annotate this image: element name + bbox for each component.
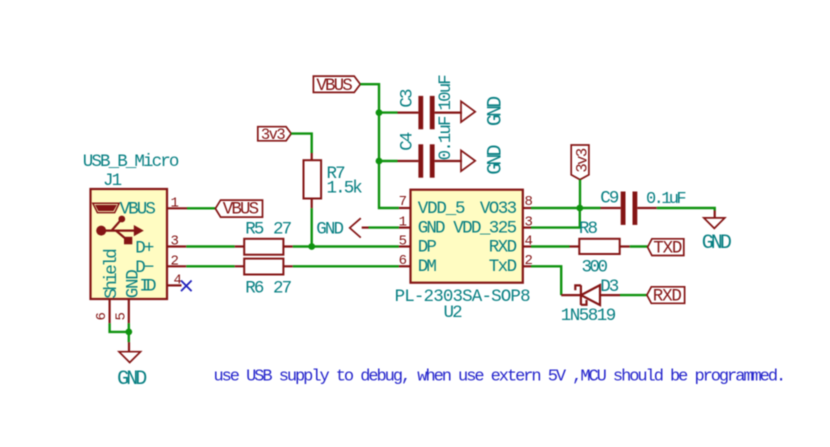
svg-text:6: 6 (94, 313, 110, 321)
junction R7/D+ (308, 243, 315, 250)
svg-text:7: 7 (399, 194, 407, 210)
wire U2 pin2 TxD down to D3 (531, 266, 561, 295)
pin 7 VDD_5 (399, 207, 411, 209)
wire U2 pin3 to 3v3 (531, 208, 580, 228)
svg-text:1: 1 (399, 214, 407, 230)
svg-text:GND: GND (316, 220, 343, 240)
svg-text:GND: GND (485, 145, 508, 174)
no-connect X on ID pin (181, 281, 192, 292)
hierarchical label GND (to U2 pin 1) (316, 218, 368, 239)
junction C3 row (376, 109, 383, 116)
svg-text:USB_B_Micro: USB_B_Micro (83, 152, 179, 172)
pin 1 GND (399, 227, 411, 229)
svg-text:R8: R8 (579, 219, 598, 239)
svg-text:1N5819: 1N5819 (561, 306, 616, 326)
global label VBUS (at pin 1) (215, 199, 262, 219)
svg-text:VBUS: VBUS (316, 76, 352, 96)
svg-text:27: 27 (273, 278, 292, 298)
svg-text:PL-2303SA-SOP8: PL-2303SA-SOP8 (395, 287, 530, 307)
pin 3 VDD_325 (523, 227, 531, 229)
pin 2 D- (167, 265, 186, 267)
svg-text:C9: C9 (600, 188, 619, 208)
wire D3 to RXD label (620, 294, 647, 296)
junction 3v3/pin8/C9 (576, 205, 583, 212)
svg-text:TXD: TXD (653, 238, 682, 258)
svg-text:D3: D3 (600, 277, 619, 297)
resistor R8 300 (531, 219, 630, 277)
svg-text:5: 5 (113, 313, 129, 321)
wires USB pins 5,6 to GND (110, 323, 129, 342)
pin 3 D+ (167, 245, 186, 247)
svg-text:Shield: Shield (102, 250, 122, 299)
svg-text:DM: DM (418, 257, 437, 277)
svg-text:VBUS: VBUS (120, 200, 156, 220)
global label RXD (647, 287, 685, 307)
power symbol GND (right of C3) (461, 97, 508, 126)
junction C4 row (376, 158, 383, 165)
svg-text:use USB supply to debug, when: use USB supply to debug, when use extern… (214, 367, 785, 386)
pin 5 DP (399, 245, 411, 247)
pin 5 GND (128, 299, 130, 323)
wire VBUS label to vertical bus (360, 84, 399, 208)
pin 8 VO33 (523, 207, 531, 209)
svg-text:TxD: TxD (489, 257, 517, 277)
svg-text:C3: C3 (398, 89, 418, 108)
svg-text:1.5k: 1.5k (327, 179, 363, 199)
svg-text:0.1uF: 0.1uF (646, 190, 685, 209)
svg-text:4: 4 (174, 273, 182, 289)
pin 6 shield (108, 299, 110, 323)
global label VBUS (top) (313, 76, 360, 96)
svg-text:VDD_325: VDD_325 (453, 218, 516, 238)
resistor R7 1.5k (304, 153, 363, 208)
svg-text:300: 300 (582, 258, 608, 278)
capacitor C3 10uF (379, 75, 462, 130)
global label 3v3 (vertical, right) (571, 145, 591, 180)
svg-text:1: 1 (171, 196, 179, 212)
pin 2 TxD (523, 265, 531, 267)
svg-text:0.1uF: 0.1uF (436, 116, 456, 160)
resistor R5 27 (235, 219, 293, 254)
svg-text:GND: GND (418, 218, 445, 238)
svg-text:5: 5 (399, 233, 407, 249)
svg-text:GND: GND (117, 368, 146, 391)
svg-text:27: 27 (273, 219, 292, 239)
wire R5 to U2 DP (293, 245, 399, 247)
pin 1 VBUS (167, 207, 187, 209)
IC U2 PL-2303SA-SOP8 (395, 190, 533, 323)
capacitor C9 0.1uF (600, 188, 685, 225)
svg-text:RXD: RXD (489, 238, 517, 258)
pin 4 ID (167, 284, 182, 286)
wire R6 to U2 DM (293, 265, 399, 267)
svg-text:2: 2 (171, 254, 179, 270)
svg-text:VO33: VO33 (480, 199, 517, 219)
svg-text:VDD_5: VDD_5 (418, 199, 465, 219)
svg-text:RXD: RXD (653, 287, 682, 307)
wire R8 to TXD label (630, 245, 648, 247)
wire C9 to GND (657, 208, 715, 211)
diode D3 1N5819 (561, 277, 620, 326)
svg-text:VBUS: VBUS (223, 199, 259, 219)
svg-text:10uF: 10uF (436, 75, 456, 111)
svg-text:U2: U2 (444, 303, 463, 323)
wire U2 pin8 to 3v3 junction and C9 (531, 207, 601, 209)
global label TXD (648, 238, 684, 258)
wire 3v3 label down to junction (579, 180, 581, 208)
wire 3v3 to R7 (291, 134, 312, 153)
wire R7 to D+ net (311, 208, 313, 246)
svg-text:C4: C4 (398, 132, 418, 151)
connector J1 USB_B_Micro (83, 152, 187, 323)
power symbol GND (right, below C9) (702, 211, 731, 256)
pin 6 DM (399, 265, 411, 267)
wire pin1 to VBUS label (187, 207, 215, 209)
svg-text:GND: GND (123, 270, 143, 299)
svg-text:3v3: 3v3 (573, 148, 591, 173)
svg-text:3v3: 3v3 (261, 126, 286, 144)
power symbol GND (right of C4) (461, 145, 508, 174)
wire D- : USB pin2 to R6 (186, 265, 235, 267)
svg-text:3: 3 (171, 234, 179, 250)
svg-text:GND: GND (485, 97, 508, 126)
resistor R6 27 (235, 259, 293, 299)
svg-text:R5: R5 (245, 219, 264, 239)
svg-text:6: 6 (399, 253, 407, 269)
global label 3v3 (left) (258, 126, 291, 144)
svg-text:GND: GND (702, 232, 731, 255)
wire D+ : USB pin3 to R5 (186, 245, 235, 247)
capacitor C4 0.1uF (379, 116, 462, 178)
junction shield/gnd (125, 329, 132, 336)
svg-text:DP: DP (418, 238, 437, 258)
svg-text:R6: R6 (245, 278, 264, 298)
wire GND label to U2 pin1 (369, 226, 399, 228)
svg-text:D+: D+ (135, 238, 154, 258)
power symbol GND (bottom left) (117, 342, 146, 391)
pin 4 RXD (523, 245, 531, 247)
